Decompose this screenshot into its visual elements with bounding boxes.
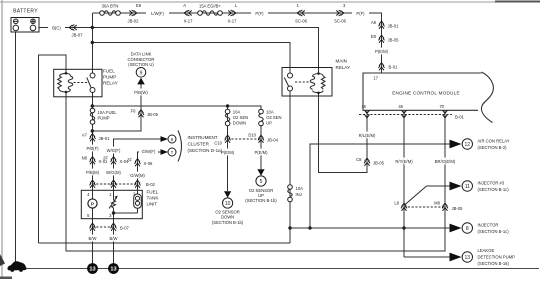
wire: ECM pin 46 to injector #3 [403, 110, 405, 257]
connector X-17 right [228, 3, 238, 24]
svg-text:L8: L8 [394, 201, 399, 206]
connector ECM pin70 [443, 110, 448, 118]
wire: instrument cluster 7 to fuel tank sender unit [138, 152, 162, 194]
svg-text:10A FUEL: 10A FUEL [98, 110, 118, 115]
svg-text:A8: A8 [371, 20, 377, 25]
fuse 10A O2 SEN DOWN [225, 109, 248, 126]
node 8 injector [450, 223, 510, 235]
svg-text:O2 SEN: O2 SEN [266, 115, 281, 120]
ECM U1 engine control module [361, 72, 493, 123]
wire: fuel pump relay coil bottom to pin70 bus [66, 92, 445, 251]
fuel tank unit lower connector B-07 dashed link [93, 226, 114, 228]
connector L8 injector [394, 201, 407, 211]
wire: main relay contact to INJ fuse and bottom bus [289, 91, 291, 243]
node: battery junction lower [91, 41, 94, 44]
wire label R/L(E/M) [355, 132, 379, 139]
svg-text:PUMP: PUMP [103, 75, 116, 80]
svg-text:2F: 2F [103, 156, 108, 161]
svg-text:(SECTION D-1a): (SECTION D-1a) [188, 148, 223, 153]
wire: fuel pump relay contact to fuel pump fuse and fuel tank unit [92, 93, 94, 199]
connector B-07 fuel tank unit bottom row [90, 223, 130, 231]
page corner mark [0, 254, 5, 266]
svg-text:13: 13 [89, 267, 95, 273]
ground node 13 left [87, 263, 98, 274]
svg-text:JB-01: JB-01 [388, 24, 400, 29]
svg-text:46: 46 [398, 104, 403, 109]
svg-text:JB-07: JB-07 [72, 33, 84, 38]
svg-text:10: 10 [225, 201, 231, 207]
svg-text:P/B(M): P/B(M) [86, 170, 100, 175]
wire: leakage detection pump feed [404, 256, 451, 258]
svg-text:RELAY: RELAY [103, 81, 118, 86]
svg-text:JB-05: JB-05 [147, 112, 159, 117]
fuel tank unit [81, 190, 159, 219]
svg-text:B-01: B-01 [455, 115, 465, 120]
fuel tank unit upper connector B-02 dashed link [93, 183, 138, 185]
wire: sender wiper link [114, 212, 138, 214]
svg-text:9: 9 [140, 70, 143, 76]
instrument cluster brace and label [178, 131, 223, 162]
wire: loop from INJ bus to fuel pump relay coil top [38, 55, 66, 243]
wire label P(E/M) O2 up [251, 149, 272, 156]
svg-text:G/W(M): G/W(M) [130, 173, 145, 178]
svg-text:MAIN: MAIN [336, 59, 347, 64]
svg-text:LEAKGE: LEAKGE [478, 248, 495, 253]
svg-text:DATA LINK: DATA LINK [131, 52, 152, 57]
wire label BR/G(E/M) [432, 158, 459, 165]
svg-text:FUEL: FUEL [147, 190, 159, 195]
svg-text:G/W(F): G/W(F) [142, 149, 156, 154]
connector C8 JB-05 [356, 157, 384, 166]
connector C10 O2 down [214, 135, 230, 145]
connector X-17 left [183, 3, 193, 24]
wire: O2 sensor down feed [227, 106, 229, 191]
svg-text:CLUSTER: CLUSTER [188, 142, 210, 147]
svg-text:C10: C10 [214, 141, 222, 146]
connector A7 JB-01 fuel pump column [82, 133, 110, 142]
wire: junction column at x=92 [91, 13, 93, 73]
node: battery junction upper [91, 26, 94, 29]
fuse 10A FUEL PUMP [90, 108, 117, 124]
ground node 13 right [108, 263, 119, 274]
svg-text:5: 5 [260, 179, 263, 185]
wire: main relay coil to ECM pin 16 [319, 94, 368, 173]
node 7 instrument cluster warning [161, 148, 177, 156]
svg-text:16: 16 [361, 104, 366, 109]
relay K1 fuel pump relay [54, 69, 118, 97]
wire label L/W(F) [146, 10, 169, 17]
wire label P(F) right [352, 10, 369, 17]
svg-text:JB-01: JB-01 [99, 136, 111, 141]
svg-text:13: 13 [465, 255, 471, 261]
wire label G/W(F) [139, 148, 158, 155]
wire: INJ bus to injector output 8 [290, 227, 451, 229]
node 12 air con relay [450, 139, 510, 151]
svg-text:DETECTION PUMP: DETECTION PUMP [478, 255, 516, 260]
svg-text:JB-05: JB-05 [388, 38, 400, 43]
svg-text:F8: F8 [131, 109, 137, 114]
svg-text:P/B(W): P/B(W) [134, 90, 148, 95]
svg-text:SC-06: SC-06 [295, 19, 308, 24]
svg-text:70: 70 [439, 104, 444, 109]
svg-text:30A BTN: 30A BTN [102, 4, 119, 9]
svg-text:X-17: X-17 [184, 19, 194, 24]
wire: battery negative to body ground [15, 32, 17, 264]
wire label P/B(F) [84, 145, 102, 152]
O2 fuse connectors dashed link [228, 138, 261, 140]
node 11 injector #3 [450, 181, 510, 193]
svg-text:P(E/M): P(E/M) [221, 150, 235, 155]
svg-text:CONNECTOR: CONNECTOR [128, 57, 155, 62]
svg-text:DOWN: DOWN [233, 121, 246, 126]
svg-text:JB-05: JB-05 [452, 206, 464, 211]
wire: fuel pump power bus to O2 fuses [92, 106, 261, 111]
svg-text:6: 6 [171, 137, 174, 143]
svg-text:E8: E8 [136, 3, 142, 8]
wire label B/W left [85, 235, 100, 242]
connector B-01 ECM top [379, 63, 399, 71]
svg-text:X-06: X-06 [144, 161, 154, 166]
wire label P(E/M) vertical feed [371, 48, 392, 55]
node: INJ bus junction at fuse column [288, 226, 291, 229]
node 13 leakage detection pump [450, 248, 516, 266]
svg-text:BR/G(E/M): BR/G(E/M) [435, 159, 456, 164]
node: leak pump branch junction [402, 226, 405, 229]
svg-text:B/W: B/W [110, 236, 118, 241]
wire: ground bus [23, 268, 539, 270]
svg-text:10A: 10A [233, 110, 241, 115]
wire label P(E/M) O2 down [217, 149, 238, 156]
svg-text:N8: N8 [82, 156, 88, 161]
svg-text:W/G(M): W/G(M) [106, 170, 121, 175]
svg-text:P(E/M): P(E/M) [254, 150, 268, 155]
svg-text:BATTERY: BATTERY [13, 9, 38, 15]
svg-text:11: 11 [465, 184, 470, 190]
node 6 instrument cluster gauge [161, 135, 177, 143]
relay K2 main relay [282, 59, 350, 97]
sender variable resistor [112, 200, 116, 208]
wire: instrument cluster 6 to fuel gauge sender [114, 139, 162, 200]
wire: ECM pin 70 column [444, 110, 446, 207]
node: fuel pump power junction [91, 104, 94, 107]
svg-text:B-02: B-02 [146, 182, 156, 187]
connector E8 JB-05 [371, 34, 399, 43]
svg-text:JB-04: JB-04 [267, 138, 279, 143]
wire: air con relay branch [310, 144, 451, 228]
body ground car symbol [7, 261, 26, 272]
svg-text:A7: A7 [82, 133, 88, 138]
svg-text:7: 7 [171, 150, 174, 156]
fuse 10A INJ [288, 185, 303, 202]
fuel level sensor [134, 194, 142, 208]
wire label P(F) mid [251, 10, 268, 17]
connector JB-02 [128, 3, 142, 24]
fuel pump motor P [88, 199, 97, 208]
svg-text:R/Y(E/M): R/Y(E/M) [395, 159, 413, 164]
connector A8 JB-01 [371, 20, 399, 29]
svg-text:(SECTION B-2): (SECTION B-2) [478, 145, 508, 150]
connector ECM pin46 [402, 110, 407, 118]
wire label W/G(M) [104, 169, 123, 176]
svg-text:INJECTOR #3: INJECTOR #3 [478, 181, 505, 186]
svg-text:L/W(F): L/W(F) [151, 11, 164, 16]
battery [11, 9, 39, 33]
connector X-06 [127, 158, 153, 167]
node: O2 down fuse tap [226, 104, 229, 107]
svg-text:P: P [91, 202, 94, 207]
svg-text:X-17: X-17 [228, 19, 238, 24]
svg-text:17: 17 [373, 76, 378, 81]
svg-text:D10: D10 [248, 133, 256, 138]
svg-text:(SECTION B-1b): (SECTION B-1b) [212, 220, 244, 225]
svg-text:RELAY: RELAY [336, 65, 351, 70]
dashed connector link lines [93, 115, 453, 228]
fuse 15A EGI B+ [198, 4, 223, 16]
svg-text:INJ: INJ [296, 192, 302, 197]
injector connectors dashed link [404, 206, 445, 208]
svg-text:R/L(E/M): R/L(E/M) [359, 133, 376, 138]
node 5 O2 sensor up [245, 169, 277, 203]
svg-text:10A: 10A [266, 110, 274, 115]
wire label P/B(M) [84, 169, 102, 176]
svg-text:ENGINE CONTROL MODULE: ENGINE CONTROL MODULE [392, 91, 460, 96]
svg-text:3F: 3F [127, 158, 132, 163]
node 10 O2 sensor down [212, 191, 244, 225]
svg-text:(SECTION B-16): (SECTION B-16) [478, 261, 510, 266]
svg-text:B(C): B(C) [52, 25, 61, 30]
connector SC-06 right [334, 3, 347, 24]
node: sender wiper junction [112, 211, 115, 214]
ECM base connector dashed line B-01 [359, 114, 452, 116]
svg-text:P(F): P(F) [356, 11, 365, 16]
node: data link tap junction [91, 129, 94, 132]
svg-text:FUEL: FUEL [103, 69, 115, 74]
svg-text:TANK: TANK [147, 196, 160, 201]
wire label G/W(M) [128, 172, 147, 179]
fuse 10A O2 SEN UP [259, 109, 282, 126]
svg-text:A: A [183, 3, 186, 8]
wire: data link connector tap [92, 84, 141, 131]
svg-text:8: 8 [466, 226, 469, 232]
wire label B(C) [48, 24, 65, 31]
wire label W/G(F) [104, 147, 123, 154]
svg-text:AIR CON RELAY: AIR CON RELAY [478, 139, 510, 144]
svg-text:JB-02: JB-02 [128, 19, 140, 24]
connector M8 JB-05 injector [434, 201, 463, 212]
wire label P/B(W) [132, 89, 151, 96]
svg-text:SC-06: SC-06 [334, 19, 347, 24]
connector F8 JB-05 data link [131, 109, 159, 118]
svg-text:B-01: B-01 [389, 65, 399, 70]
connector ECM pin16 [365, 110, 370, 118]
svg-text:PUMP: PUMP [98, 116, 110, 121]
wire: fuel pump motor to ground circle 13 [92, 208, 94, 264]
svg-text:JB-05: JB-05 [373, 161, 385, 166]
svg-text:13: 13 [110, 267, 116, 273]
svg-text:(SECTION B-1b): (SECTION B-1b) [245, 198, 277, 203]
wire label R/Y(E/M) [392, 158, 416, 165]
svg-text:15A EGI/B+: 15A EGI/B+ [199, 4, 222, 9]
connector B-02 fuel tank unit top row [90, 180, 156, 188]
svg-text:E8: E8 [371, 34, 377, 39]
wire: battery output to main relay coil top [39, 28, 319, 74]
svg-text:P(F): P(F) [255, 11, 264, 16]
svg-text:M8: M8 [434, 201, 440, 206]
svg-text:B/W: B/W [89, 236, 97, 241]
node: air con branch junction [308, 226, 311, 229]
svg-text:C8: C8 [356, 157, 362, 162]
svg-text:B-07: B-07 [120, 226, 130, 231]
wire label B/W right [106, 235, 121, 242]
svg-text:(SECTION B-1c): (SECTION B-1c) [478, 229, 510, 234]
connector D10 JB-04 O2 up [248, 133, 278, 143]
svg-text:W/G(F): W/G(F) [107, 148, 121, 153]
wire: battery B+ feed to fuse row, corner down to ECM B-01 [92, 13, 381, 73]
connector SC-06 left [295, 3, 308, 24]
svg-text:P/B(F): P/B(F) [86, 146, 99, 151]
svg-text:(SECTION B-1c): (SECTION B-1c) [478, 187, 510, 192]
connector X-04 [103, 156, 129, 165]
wire: sender column inside tank to ground [113, 208, 115, 264]
svg-text:INSTRUMENT: INSTRUMENT [188, 135, 218, 140]
svg-text:UP: UP [266, 121, 272, 126]
node 9 data link connector [128, 52, 155, 85]
svg-text:P(E/M): P(E/M) [375, 49, 389, 54]
svg-text:INJECTOR: INJECTOR [478, 223, 499, 228]
connector X-01 [82, 156, 108, 165]
fuse 30A BTN [100, 4, 121, 16]
svg-text:12: 12 [465, 142, 471, 148]
wire: bottom bus to INJ fuse column [38, 242, 290, 244]
wire: battery bus to main relay contact [92, 43, 290, 74]
connector JB-07 [69, 25, 83, 38]
svg-text:UNIT: UNIT [147, 202, 158, 207]
svg-text:(SECTION U): (SECTION U) [128, 62, 154, 67]
svg-text:O2 SEN: O2 SEN [233, 115, 248, 120]
wire: injector #3 diagonal crossover [404, 186, 451, 206]
svg-text:10A: 10A [296, 186, 304, 191]
wire: O2 sensor up feed [260, 124, 262, 169]
